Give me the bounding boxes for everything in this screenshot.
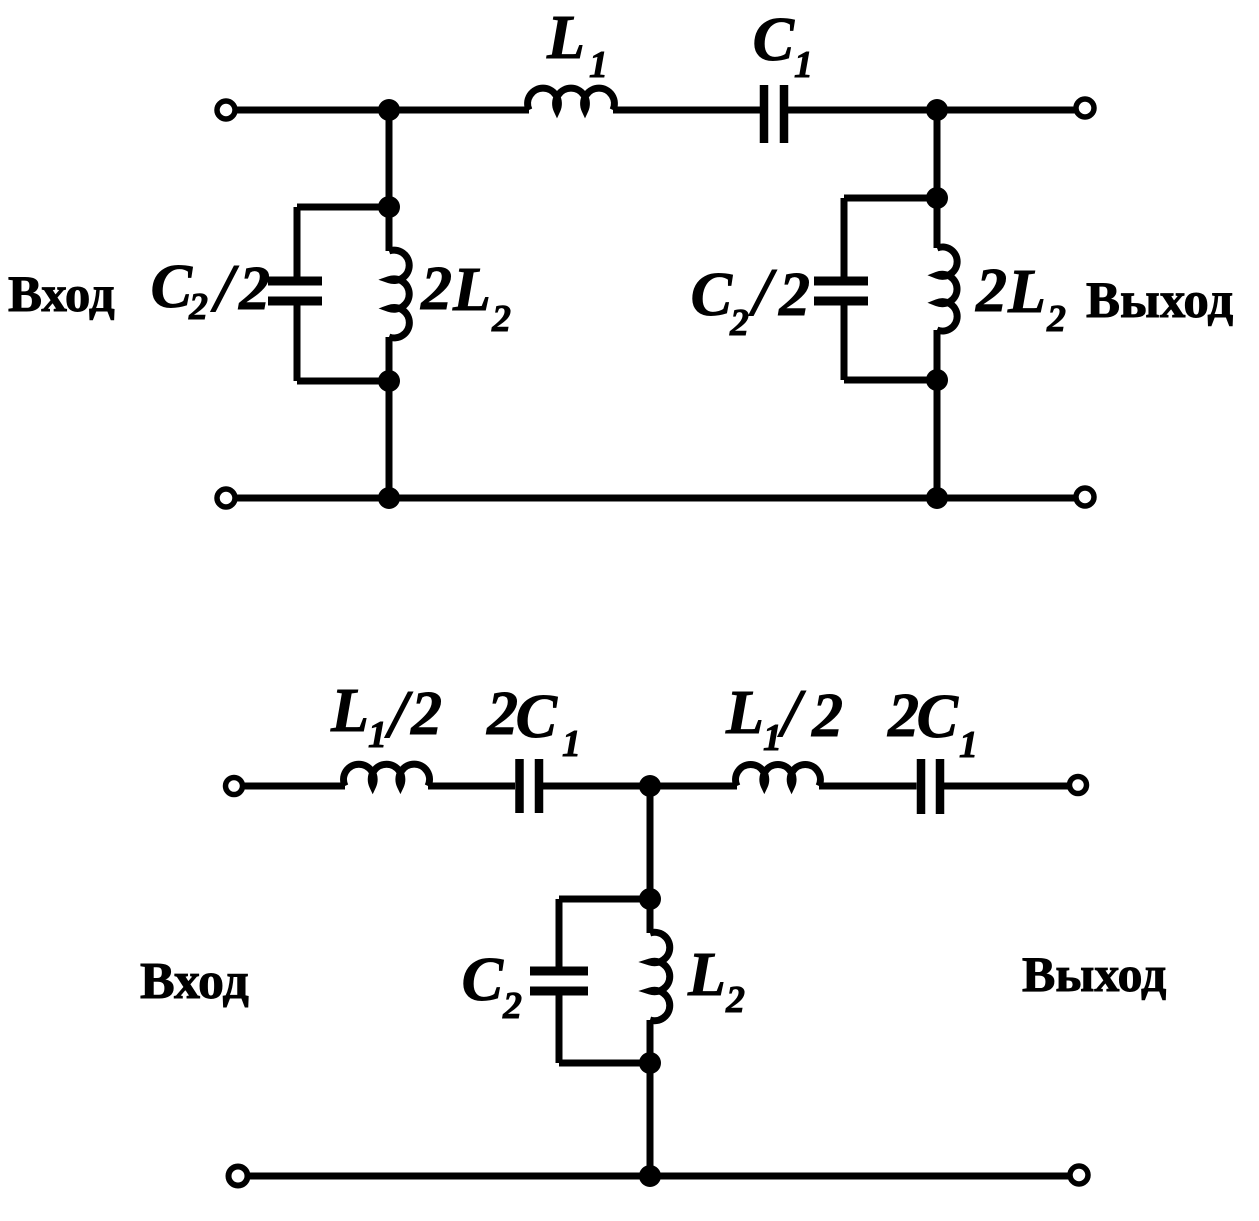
wire bottom rail of top circuit [237, 495, 1076, 502]
node: junction bottom rail centre [639, 1165, 661, 1187]
capacitor C2/2 (right shunt) [814, 281, 868, 301]
wire: L1 to C1 [613, 107, 760, 114]
svg-text:C: C [516, 683, 558, 751]
node: junction top-right on rail [926, 99, 948, 121]
svg-text:L: L [1007, 258, 1046, 326]
svg-text:2: 2 [188, 286, 208, 328]
svg-text:C: C [917, 683, 959, 751]
terminal bottom-left (bottom circuit) [229, 1167, 248, 1186]
terminal bottom-right (bottom circuit) [1070, 1166, 1088, 1184]
svg-text:1: 1 [794, 44, 813, 86]
inductor L1/2 second [736, 764, 821, 786]
capacitor C1 [764, 85, 784, 143]
node: junction left box top [378, 196, 400, 218]
node: junction middle box bottom [639, 1052, 661, 1074]
wire: middle box left vertical upper [556, 899, 563, 967]
wire: centre shunt vertical upper [647, 786, 654, 933]
inductor 2L2 (left shunt coil) [389, 250, 409, 338]
wire top rail: terminal to L1 [237, 107, 529, 114]
wire: L1/2 to 2C1 [428, 783, 515, 790]
wire: middle box bottom rail [559, 1060, 650, 1067]
svg-text:/: / [384, 676, 414, 752]
svg-text:1: 1 [562, 723, 581, 765]
svg-text:Вход: Вход [8, 267, 115, 323]
wire: left box left vertical lower [294, 305, 301, 381]
node: junction left box bottom [378, 370, 400, 392]
wire: centre shunt vertical lower [647, 1020, 654, 1176]
wire: right box left vertical upper [841, 198, 848, 277]
terminal bottom-right of top circuit [1076, 488, 1094, 506]
svg-text:C: C [151, 253, 193, 321]
inductor L1 [528, 88, 615, 110]
node: junction centre top rail [639, 775, 661, 797]
svg-text:/: / [777, 675, 807, 751]
svg-text:2: 2 [725, 979, 745, 1021]
wire: left shunt vertical upper [386, 110, 393, 251]
wire: left box bottom rail [297, 378, 389, 385]
wire: left shunt vertical lower [386, 337, 393, 498]
svg-text:2: 2 [811, 682, 843, 750]
svg-text:2: 2 [1046, 298, 1066, 340]
svg-text:/: / [210, 250, 240, 326]
capacitor C2/2 (left shunt) [268, 281, 322, 301]
inductor 2L2 (right shunt coil) [937, 247, 957, 331]
node: junction right box bottom [926, 369, 948, 391]
svg-text:C: C [753, 6, 795, 74]
svg-text:Выход: Выход [1086, 273, 1233, 329]
wire: left box left vertical upper [294, 207, 301, 277]
wire: left box top rail [297, 204, 389, 211]
wire: terminal to L1/2 [244, 783, 345, 790]
svg-text:Вход: Вход [140, 953, 249, 1010]
svg-text:/: / [748, 254, 778, 330]
svg-text:C: C [462, 946, 504, 1014]
node: junction right box top [926, 187, 948, 209]
svg-text:L: L [546, 4, 585, 72]
terminal bottom-left of top circuit [217, 489, 235, 507]
svg-text:1: 1 [589, 44, 608, 86]
wire: 2C1 to right terminal [944, 783, 1068, 790]
wire: right shunt vertical upper [934, 110, 941, 248]
svg-text:Выход: Выход [1022, 946, 1166, 1002]
wire: right box top rail [844, 195, 937, 202]
wire: middle box left vertical lower [556, 995, 563, 1063]
capacitor C2 (middle) [530, 971, 588, 991]
terminal right (bottom circuit) [1070, 777, 1087, 794]
node: junction top-left on rail [378, 99, 400, 121]
svg-text:2: 2 [502, 985, 522, 1027]
svg-text:2: 2 [778, 261, 810, 329]
node: junction bottom-right rail [926, 487, 948, 509]
terminal top-right [1076, 99, 1094, 117]
node: junction middle box top [639, 888, 661, 910]
svg-text:1: 1 [959, 724, 978, 766]
svg-text:L: L [725, 679, 764, 747]
wire: 2C1 to centre node [543, 783, 737, 790]
svg-text:2: 2 [410, 680, 442, 748]
terminal top-left [217, 101, 235, 119]
wire: right shunt vertical lower [934, 330, 941, 498]
wire: right box left vertical lower [841, 305, 848, 380]
svg-text:2: 2 [975, 257, 1007, 325]
capacitor 2C1 first [520, 759, 540, 813]
svg-text:2: 2 [887, 682, 919, 750]
svg-text:C: C [691, 261, 733, 329]
svg-text:L: L [687, 941, 726, 1009]
svg-text:2: 2 [238, 255, 270, 323]
svg-text:1: 1 [368, 714, 387, 756]
svg-text:2: 2 [486, 680, 518, 748]
svg-text:2: 2 [420, 255, 452, 323]
wire: middle box top rail [559, 896, 650, 903]
node: junction bottom-left rail [378, 487, 400, 509]
svg-text:L: L [330, 677, 369, 745]
wire: C1 to output terminal [788, 107, 1076, 114]
wire: bottom rail of bottom circuit [249, 1173, 1068, 1180]
wire: right box bottom rail [844, 377, 937, 384]
inductor L2 (middle coil) [650, 932, 670, 1020]
svg-text:1: 1 [763, 717, 782, 759]
svg-text:L: L [452, 256, 491, 324]
inductor L1/2 first [344, 764, 430, 786]
wire: L1/2 to 2C1 second [819, 783, 917, 790]
svg-text:2: 2 [491, 298, 511, 340]
capacitor 2C1 second [921, 759, 940, 814]
svg-text:2: 2 [729, 302, 749, 344]
terminal left (bottom circuit) [226, 778, 243, 795]
